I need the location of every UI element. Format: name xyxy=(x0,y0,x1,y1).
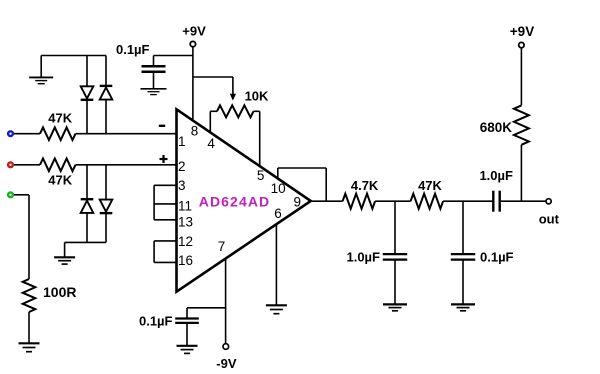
svg-text:10: 10 xyxy=(271,181,286,196)
svg-text:47K: 47K xyxy=(48,111,72,126)
svg-text:3: 3 xyxy=(178,178,186,193)
svg-text:12: 12 xyxy=(178,234,193,249)
svg-text:4.7K: 4.7K xyxy=(351,178,379,193)
svg-text:5: 5 xyxy=(257,168,265,183)
svg-text:8: 8 xyxy=(191,124,199,139)
svg-text:-9V: -9V xyxy=(216,356,237,371)
svg-text:13: 13 xyxy=(178,215,193,230)
svg-text:16: 16 xyxy=(178,253,193,268)
svg-text:9: 9 xyxy=(293,194,301,209)
svg-text:10K: 10K xyxy=(245,88,269,103)
svg-text:7: 7 xyxy=(218,239,226,254)
svg-text:11: 11 xyxy=(178,199,192,214)
svg-text:2: 2 xyxy=(178,159,186,174)
svg-text:0.1µF: 0.1µF xyxy=(139,313,173,328)
svg-text:1.0µF: 1.0µF xyxy=(346,250,380,265)
svg-text:+9V: +9V xyxy=(510,24,534,39)
svg-text:0.1µF: 0.1µF xyxy=(116,42,150,57)
svg-text:1: 1 xyxy=(178,134,186,149)
svg-text:1.0µF: 1.0µF xyxy=(479,168,513,183)
svg-text:AD624AD: AD624AD xyxy=(199,193,271,209)
svg-text:+9V: +9V xyxy=(182,24,206,39)
svg-text:47K: 47K xyxy=(418,178,442,193)
svg-text:out: out xyxy=(539,211,560,226)
svg-text:6: 6 xyxy=(274,206,282,221)
svg-text:680K: 680K xyxy=(480,120,513,135)
svg-text:47K: 47K xyxy=(48,173,72,188)
svg-text:100R: 100R xyxy=(43,284,76,300)
svg-text:4: 4 xyxy=(207,136,215,151)
svg-text:0.1µF: 0.1µF xyxy=(480,250,514,265)
